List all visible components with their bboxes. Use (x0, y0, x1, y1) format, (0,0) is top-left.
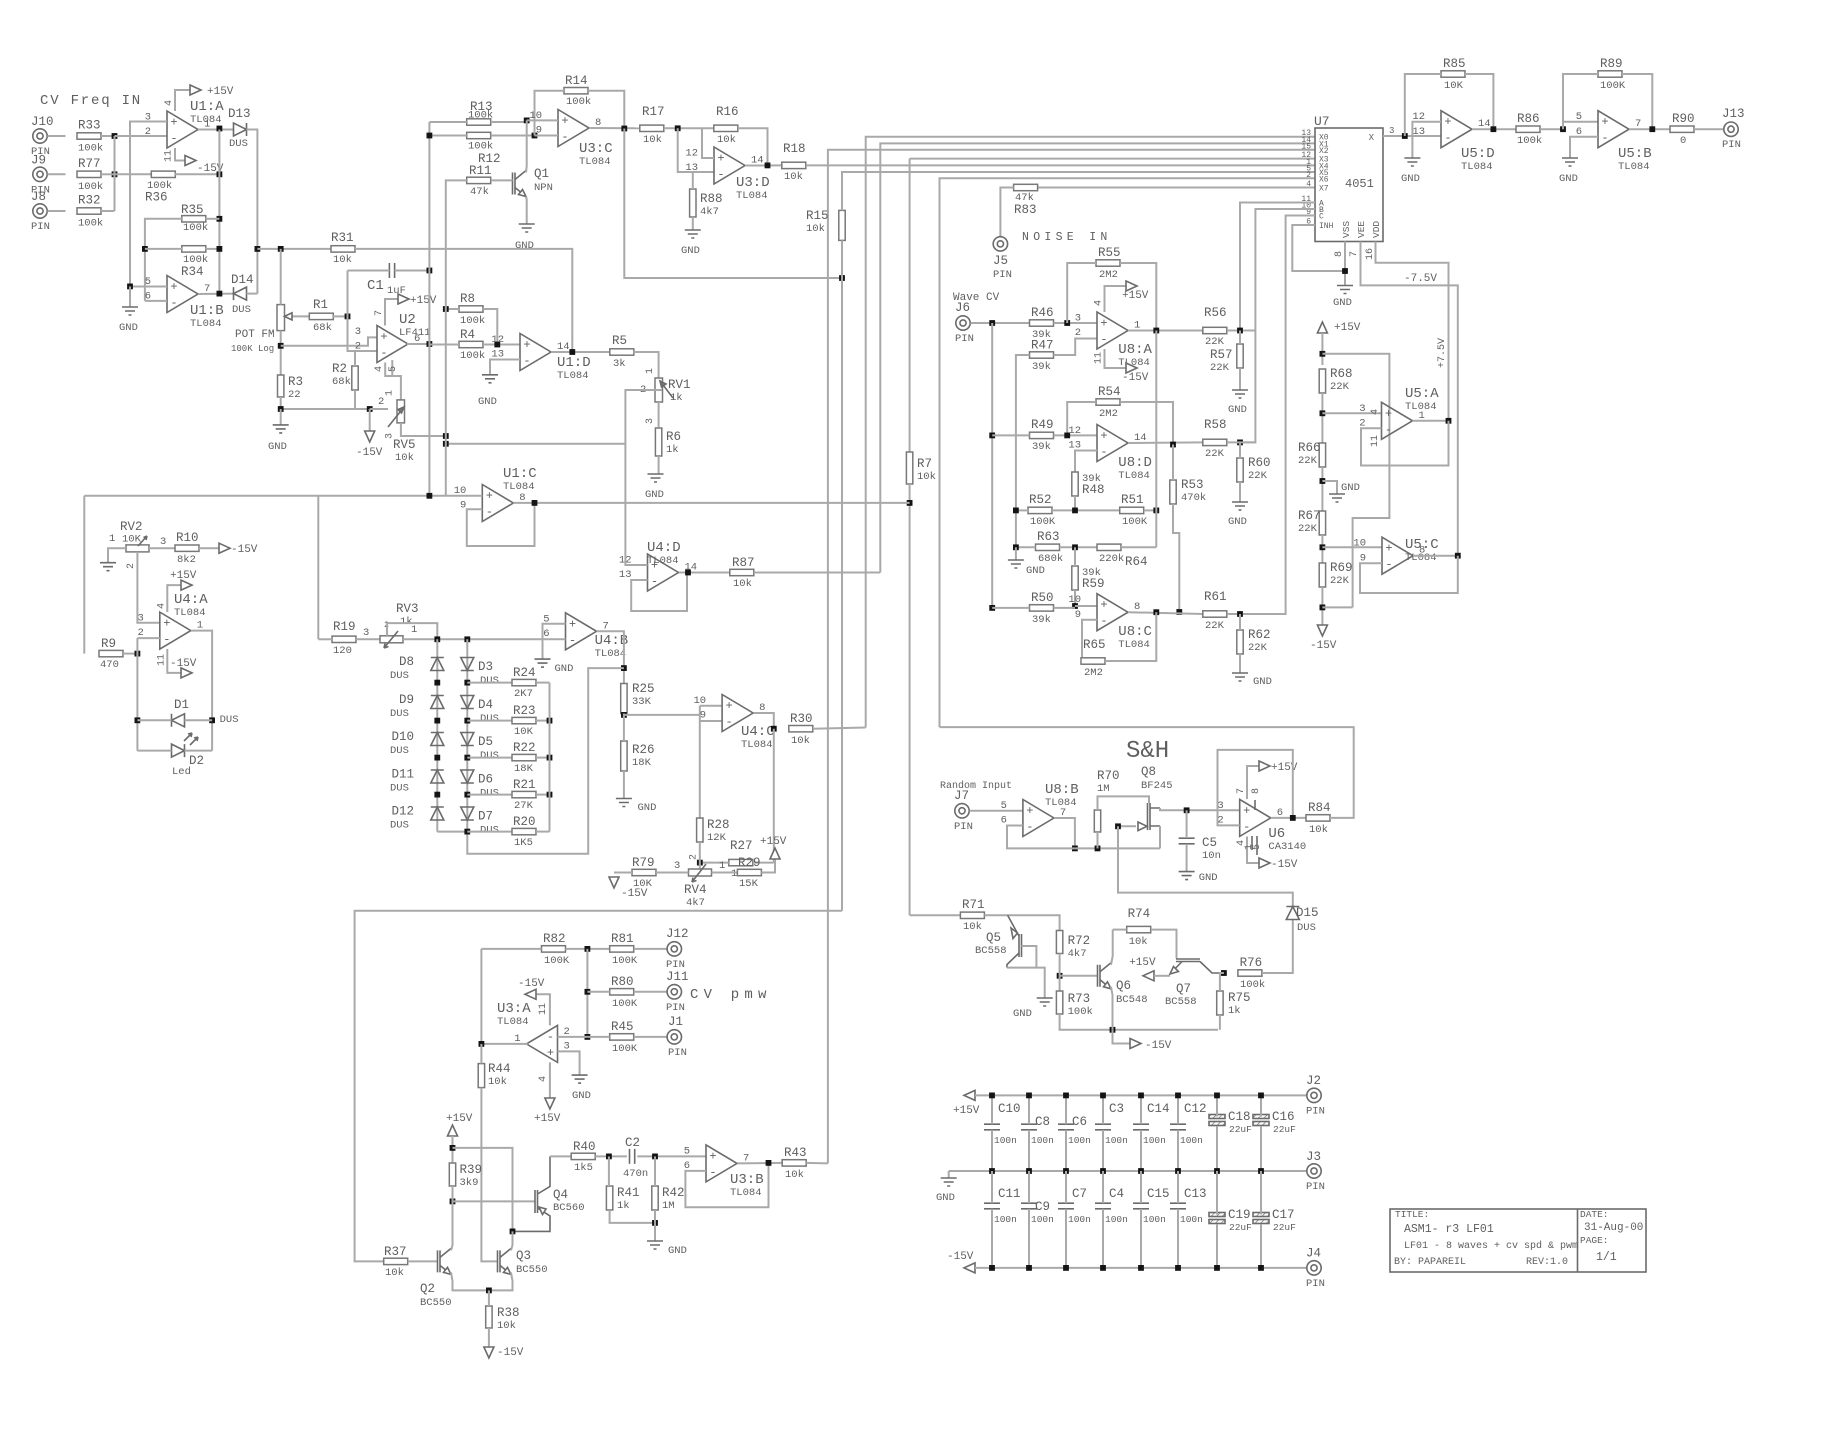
wire U1:D pin13 gnd (490, 360, 520, 375)
svg-text:100n: 100n (994, 1135, 1017, 1146)
svg-text:R76: R76 (1240, 956, 1263, 970)
svg-text:1M: 1M (662, 1200, 675, 1212)
svg-text:1uF: 1uF (387, 285, 406, 297)
svg-text:GND: GND (681, 245, 700, 257)
power -15V U1:A pin11 (175, 148, 185, 161)
svg-text:100k: 100k (460, 350, 485, 362)
wire R61-R62 (1239, 614, 1241, 630)
capacitor C14 (1133, 1124, 1149, 1130)
wire X4 net R18 to U7 (806, 164, 1315, 166)
svg-text:8: 8 (1334, 251, 1345, 257)
wire U7 INH (1292, 225, 1345, 271)
svg-text:5: 5 (1001, 800, 1007, 812)
svg-text:3: 3 (1359, 403, 1365, 415)
wire ladder bottom link (437, 831, 467, 833)
svg-text:10k: 10k (784, 171, 803, 183)
svg-text:R18: R18 (783, 142, 806, 156)
svg-text:R40: R40 (573, 1140, 596, 1154)
svg-text:1k: 1k (1228, 1005, 1241, 1017)
power +15V Q block (448, 1125, 458, 1136)
svg-text:C12: C12 (1184, 1102, 1207, 1116)
wire U3:B feedback (685, 1163, 768, 1207)
svg-text:2: 2 (126, 563, 137, 569)
wire U5:B out (1629, 128, 1670, 130)
svg-text:100k: 100k (183, 254, 208, 266)
wire X1 net (880, 143, 1315, 572)
resistor R17 (640, 125, 664, 131)
wire R43 to X2 riser (806, 1162, 828, 1165)
wire R2 bottom (354, 390, 356, 409)
resistor R35 (182, 216, 206, 222)
svg-text:U8:B: U8:B (1045, 782, 1079, 798)
svg-text:+15V: +15V (1334, 322, 1361, 334)
svg-text:10k: 10k (917, 471, 936, 483)
svg-text:4: 4 (1370, 409, 1381, 415)
wire U8:B feedback (1007, 826, 1075, 849)
wire U1:C feedback (467, 503, 535, 546)
svg-text:C9: C9 (1035, 1200, 1050, 1214)
wire RV2 wiper to U4:A pin3 (137, 552, 159, 623)
svg-text:TL084: TL084 (174, 607, 206, 619)
svg-text:22K: 22K (1330, 381, 1350, 393)
svg-text:3: 3 (1389, 126, 1394, 136)
diode D14 (234, 287, 247, 300)
svg-text:2K7: 2K7 (514, 688, 533, 700)
wire U3:A pin2 (558, 1036, 588, 1038)
op-amp U4:B (566, 613, 597, 650)
wire U7 C select (1240, 216, 1315, 615)
svg-text:R74: R74 (1128, 907, 1151, 921)
wire U6 out (1271, 817, 1306, 819)
node U5:A pin3 (1320, 410, 1326, 416)
svg-text:10K: 10K (514, 726, 534, 738)
wire R27 right (753, 862, 774, 864)
pot RV2 body (126, 545, 149, 552)
wire X2 net (828, 150, 1315, 1164)
ground U1:B input (129, 286, 131, 307)
wire R70 bottom (1097, 832, 1099, 848)
svg-text:1k: 1k (670, 392, 683, 404)
svg-text:+: + (170, 116, 177, 130)
svg-text:1M: 1M (1097, 783, 1110, 795)
wire J8 to R32 (48, 210, 66, 212)
wire U4:C feedback vert (773, 729, 775, 863)
node R33/R77 junction (112, 133, 118, 139)
op-amp U8:A (1097, 312, 1128, 349)
svg-text:GND: GND (1228, 516, 1247, 528)
wire Q6 base (1060, 975, 1098, 977)
svg-text:C1: C1 (367, 278, 384, 294)
svg-text:-: - (486, 505, 493, 519)
wire R65 left leg (1081, 660, 1082, 662)
svg-text:R45: R45 (611, 1020, 634, 1034)
wire +15V over to Q3 collector (453, 1148, 513, 1232)
wire Q6 collector (1111, 930, 1113, 965)
svg-text:GND: GND (119, 322, 138, 334)
svg-text:Q7: Q7 (1176, 982, 1191, 996)
wire R24 right (536, 682, 550, 684)
svg-text:R90: R90 (1672, 112, 1695, 126)
wire R34 right (206, 248, 220, 250)
wire R86 right (1540, 128, 1563, 130)
capacitor C18 (1209, 1115, 1225, 1119)
svg-text:100K: 100K (1600, 80, 1626, 92)
svg-text:R87: R87 (732, 556, 755, 570)
wire U8:A out (1128, 330, 1203, 332)
svg-text:R38: R38 (497, 1306, 520, 1320)
resistor R71 (960, 912, 984, 918)
resistor R28 (697, 818, 703, 842)
wire R54 right leg (1120, 402, 1173, 445)
svg-text:+: + (1026, 804, 1033, 818)
capacitor C6 (1058, 1124, 1074, 1130)
wire R63 right (1060, 546, 1098, 548)
svg-text:1: 1 (109, 533, 115, 545)
svg-text:100n: 100n (1031, 1214, 1054, 1225)
wire D1 leads (137, 719, 171, 721)
svg-text:U5:B: U5:B (1618, 146, 1652, 162)
svg-text:DUS: DUS (1297, 922, 1316, 934)
svg-text:-: - (1243, 820, 1250, 834)
svg-text:100K: 100K (612, 998, 638, 1010)
wire U1:B output (198, 293, 234, 295)
wire U4:D out (679, 572, 730, 574)
IC U7 4051 body (1315, 128, 1383, 242)
svg-text:R83: R83 (1014, 203, 1037, 217)
svg-text:PIN: PIN (666, 1002, 685, 1014)
wire node row to R31 (257, 248, 331, 250)
wire R44 top (480, 1044, 482, 1064)
svg-text:100n: 100n (1105, 1214, 1128, 1225)
op-amp U4:D (648, 554, 679, 591)
svg-text:39k: 39k (1032, 441, 1051, 453)
svg-text:R67: R67 (1298, 509, 1321, 523)
capacitor C5 (1179, 838, 1195, 844)
svg-text:+: + (547, 1046, 554, 1060)
svg-text:100k: 100k (78, 181, 103, 193)
svg-text:Q6: Q6 (1116, 979, 1131, 993)
resistor R50 (1030, 605, 1054, 611)
wire R50 leads (992, 607, 1029, 609)
svg-text:R31: R31 (331, 231, 354, 245)
svg-text:R62: R62 (1248, 628, 1271, 642)
svg-text:R60: R60 (1248, 456, 1271, 470)
trimmer RV5 arrow (388, 407, 404, 427)
svg-text:470: 470 (100, 659, 119, 671)
ground R63 node (1015, 547, 1017, 560)
svg-text:+15V: +15V (207, 86, 234, 98)
diode D1 (172, 714, 185, 727)
wire pot FM top (280, 249, 282, 305)
op-amp U5:C (1382, 537, 1413, 574)
capacitor C12 (1170, 1124, 1186, 1130)
op-amp U8:C (1097, 594, 1128, 631)
svg-text:TL084: TL084 (736, 190, 768, 202)
svg-text:C17: C17 (1272, 1208, 1295, 1222)
op-amp U1:A (167, 111, 198, 148)
resistor R6 (655, 428, 661, 456)
svg-text:13: 13 (619, 569, 632, 581)
connector J8 (33, 204, 47, 218)
svg-text:22uF: 22uF (1229, 1124, 1252, 1135)
resistor R26 (621, 741, 627, 771)
diode D8 (431, 658, 444, 671)
svg-text:-: - (380, 346, 387, 360)
wire U7 VSS gnd (1344, 242, 1346, 286)
wire Q5 base loop (1007, 946, 1036, 968)
svg-text:R16: R16 (716, 105, 739, 119)
svg-text:4: 4 (164, 100, 175, 106)
svg-text:D8: D8 (399, 655, 414, 669)
svg-text:DUS: DUS (390, 783, 409, 795)
wire Q6 emitter (1111, 987, 1113, 1030)
wire Q4 base row (453, 1200, 536, 1202)
wire R84 to X6 route (940, 727, 1354, 818)
resistor R12 (467, 132, 491, 138)
svg-text:+: + (1385, 407, 1392, 421)
svg-text:GND: GND (1559, 173, 1578, 185)
ground R88 (685, 230, 701, 238)
svg-text:4: 4 (1094, 300, 1105, 306)
capacitor C10 (984, 1124, 1000, 1130)
power +15V U6 (1247, 766, 1259, 799)
wire U7 X out (1383, 135, 1441, 137)
node ladder row R21 (434, 792, 440, 798)
svg-text:2: 2 (689, 854, 700, 860)
wire R17 node down to U3:D pin13 (678, 128, 714, 172)
svg-text:D5: D5 (478, 735, 493, 749)
wire R56-R57 (1239, 331, 1241, 345)
svg-text:5: 5 (1576, 111, 1582, 123)
svg-text:D13: D13 (228, 107, 251, 121)
svg-text:18K: 18K (514, 763, 534, 775)
resistor R14 (564, 88, 588, 94)
wire R47 right (1054, 339, 1098, 356)
resistor R74 (1127, 926, 1151, 932)
wire J6 feed (971, 322, 1031, 324)
svg-text:4: 4 (538, 1076, 549, 1082)
svg-text:R80: R80 (611, 975, 634, 989)
wire R19 to RV3 (356, 638, 380, 640)
svg-text:LF01 - 8 waves + cv spd & pwm: LF01 - 8 waves + cv spd & pwm (1404, 1240, 1578, 1252)
wire RV2 left gnd (108, 548, 126, 563)
svg-text:3: 3 (160, 536, 166, 548)
wire Q1 emitter gnd (525, 197, 528, 225)
wire R19 riser (317, 496, 319, 640)
svg-text:6: 6 (1001, 815, 1007, 827)
svg-text:1: 1 (411, 624, 417, 636)
transistor Q4 PNP (535, 1190, 538, 1213)
ground U5:B (1562, 158, 1578, 166)
svg-text:100n: 100n (1068, 1135, 1091, 1146)
resistor R79 (632, 869, 656, 875)
svg-text:Q1: Q1 (534, 167, 549, 181)
power +15V U3:A pin4 (549, 1062, 551, 1098)
U2 offset pins 4 5 (385, 363, 401, 400)
svg-text:BC558: BC558 (1165, 996, 1197, 1008)
svg-text:R21: R21 (513, 778, 536, 792)
svg-text:-15V: -15V (1122, 372, 1149, 384)
svg-text:TL084: TL084 (503, 481, 535, 493)
resistor R19 (332, 636, 356, 642)
svg-text:6: 6 (543, 628, 549, 640)
wire R21 right (536, 794, 550, 796)
svg-text:22K: 22K (1210, 362, 1230, 374)
title block frame (1390, 1209, 1646, 1272)
svg-text:C5: C5 (1202, 836, 1217, 850)
wire R29 right +15V (761, 859, 775, 873)
svg-text:CA3140: CA3140 (1268, 841, 1306, 853)
svg-text:GND: GND (268, 441, 287, 453)
svg-text:GND: GND (1253, 676, 1272, 688)
wire RV5 bottom loop (401, 423, 446, 436)
wire R42 top (654, 1156, 656, 1186)
svg-text:R56: R56 (1204, 306, 1227, 320)
svg-text:10k: 10k (785, 1169, 804, 1181)
wire R5 to RV1 (634, 352, 659, 378)
svg-text:12K: 12K (707, 832, 727, 844)
wire R51 right (1144, 509, 1157, 511)
wire R9 right (123, 653, 137, 655)
svg-text:22K: 22K (1205, 336, 1225, 348)
wire R79 left -15V (614, 872, 632, 874)
resistor R42 (652, 1186, 658, 1210)
wire R69 bottom (1321, 587, 1323, 625)
vertical U1 outputs link (218, 130, 220, 294)
svg-text:R59: R59 (1082, 577, 1105, 591)
svg-text:22K: 22K (1248, 470, 1268, 482)
svg-text:TL084: TL084 (1405, 552, 1437, 564)
wire RV1 wiper row (648, 389, 662, 391)
resistor R90 (1670, 126, 1694, 132)
wire R4 left (429, 344, 459, 346)
wire ladder row R22 (467, 757, 512, 759)
wire Q8 gate (1118, 825, 1136, 827)
resistor R75 (1217, 991, 1223, 1015)
svg-text:27K: 27K (514, 800, 534, 812)
svg-text:J13: J13 (1722, 107, 1745, 121)
resistor R24 (512, 679, 536, 685)
wire R35 left (145, 219, 182, 301)
wire ladder row R24 (467, 682, 512, 684)
svg-text:-: - (717, 168, 724, 182)
node D1 right (209, 717, 215, 723)
svg-text:X2: X2 (1319, 147, 1329, 156)
wire R3 bottom row (281, 397, 370, 409)
svg-text:R8: R8 (460, 292, 475, 306)
svg-text:11: 11 (1370, 435, 1381, 447)
svg-text:U4:A: U4:A (174, 592, 208, 608)
svg-text:GND: GND (572, 1090, 591, 1102)
svg-text:+: + (561, 114, 568, 128)
wire RV1 wiper to bus (446, 390, 648, 444)
svg-text:100k: 100k (468, 141, 493, 153)
svg-text:R3: R3 (288, 375, 303, 389)
svg-text:4k7: 4k7 (700, 206, 719, 218)
node R68 top (1320, 351, 1326, 357)
svg-text:BC550: BC550 (516, 1264, 548, 1276)
svg-text:R33: R33 (78, 119, 101, 133)
svg-text:R71: R71 (962, 898, 985, 912)
transistor Q8 JFET (1148, 803, 1151, 830)
diode D7 (461, 807, 474, 820)
svg-text:R81: R81 (611, 932, 634, 946)
svg-text:C10: C10 (998, 1102, 1021, 1116)
vertical C1 left / U2 pin2 (348, 271, 378, 352)
power -15V U8:A (1105, 349, 1127, 368)
svg-text:J8: J8 (31, 190, 46, 204)
trimmer RV5 body (397, 400, 405, 423)
wire R7 node to R71 (910, 914, 961, 916)
svg-text:DUS: DUS (480, 788, 499, 800)
wire R77 out (101, 173, 115, 175)
svg-text:R53: R53 (1181, 478, 1204, 492)
svg-text:-7.5V: -7.5V (1404, 273, 1437, 285)
pot RV3 arrow (384, 631, 398, 648)
svg-text:TL084: TL084 (1405, 401, 1437, 413)
svg-text:S&H: S&H (1126, 738, 1169, 765)
svg-text:DUS: DUS (390, 745, 409, 757)
svg-text:PIN: PIN (1306, 1181, 1325, 1193)
svg-text:+15V: +15V (760, 836, 787, 848)
wire R32 out (101, 210, 115, 212)
svg-text:Random Input: Random Input (940, 780, 1012, 792)
wire ladder row R20 (467, 831, 512, 833)
svg-text:+15V: +15V (953, 1105, 980, 1117)
svg-text:C4: C4 (1109, 1187, 1124, 1201)
svg-text:100k: 100k (468, 110, 493, 122)
capacitor C8 (1021, 1124, 1037, 1130)
wire U3:D pin12 (702, 128, 714, 158)
svg-text:D11: D11 (391, 768, 414, 782)
node U3:C inputs (524, 118, 530, 124)
svg-text:REV:1.0: REV:1.0 (1526, 1257, 1568, 1268)
op-amp U5:D (1441, 111, 1472, 148)
svg-text:PIN: PIN (993, 269, 1012, 281)
wire R87 to X1 riser (754, 572, 881, 574)
wire C1 left (348, 270, 390, 272)
wire U1:B pin6 to R34 node (145, 300, 167, 302)
svg-text:1k: 1k (617, 1200, 630, 1212)
wire R45 leads (587, 1036, 609, 1038)
svg-text:22K: 22K (1205, 620, 1225, 632)
wire R52 leads (1016, 509, 1028, 511)
node D13/D14 column (255, 246, 261, 252)
wire square wave long feed (355, 911, 842, 1262)
wire RV3 wiper loop (387, 623, 437, 639)
wire U8:C out (1128, 612, 1203, 614)
svg-text:3: 3 (355, 326, 361, 338)
svg-text:10k: 10k (963, 921, 982, 933)
resistor R4 (459, 341, 483, 347)
svg-text:GND: GND (515, 240, 534, 252)
wire Q8 drain to U6 (1160, 808, 1240, 810)
svg-text:GND: GND (638, 802, 657, 814)
rail -15V (964, 1263, 975, 1273)
wire U5:B pin6 gnd (1570, 137, 1598, 158)
wire U7 A select (1240, 203, 1315, 332)
svg-text:PAGE:: PAGE: (1580, 1235, 1609, 1246)
svg-text:J7: J7 (954, 789, 969, 803)
ground R62 (1239, 654, 1241, 673)
wire D2 leads (137, 750, 171, 752)
resistor R30 (789, 726, 813, 732)
resistor R13 (467, 119, 491, 125)
wire U1:C out row (513, 502, 909, 504)
wire R79 to RV4 (656, 872, 689, 874)
power -15V U6 (1247, 837, 1259, 864)
wire ladder row R21 (467, 794, 512, 796)
